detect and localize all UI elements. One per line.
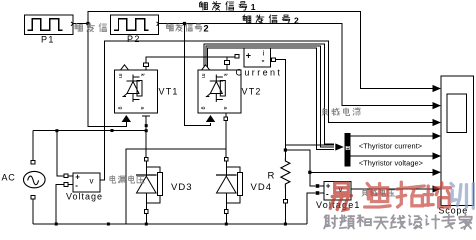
- wire: load node to scope input6 and Voltage1 + input: [285, 150, 433, 172]
- svg-text:k: k: [139, 74, 145, 77]
- VT2 gate input arrowhead below block: [206, 115, 215, 122]
- wire: bottom rail: [33, 223, 307, 225]
- wire: R bottom lead: [284, 203, 286, 224]
- wire: VT2 m-port fanout line a to bus selector: [204, 44, 334, 144]
- VT1 cathode port square: [144, 63, 149, 67]
- wire: VT2 m-port fanout line c to bus selector: [208, 48, 334, 150]
- diode VD3: [144, 157, 148, 161]
- svg-text:a: a: [222, 107, 228, 110]
- wire: AC source bottom terminal lead: [32, 199, 34, 224]
- svg-text:m: m: [117, 74, 123, 79]
- wire: Voltage - input to bottom rail: [56, 185, 64, 225]
- wire: Voltage1 - input to bottom rail: [307, 193, 316, 224]
- current measurement block Current: [244, 48, 271, 67]
- wire: P1 trigger branch down to VT1 gate: [88, 24, 126, 127]
- svg-text:VT2: VT2: [242, 87, 262, 97]
- svg-text:m: m: [200, 74, 206, 79]
- wire: bus selector output 2 to scope input5: [351, 155, 434, 157]
- wire: Voltage1 output to scope input7: [351, 188, 434, 190]
- label: 负载电压 grey: [363, 189, 364, 191]
- resistor R (load): [281, 158, 290, 189]
- scope block: [441, 76, 474, 206]
- wire: P1 trigger signal 触发信号1 to scope input1: [73, 12, 434, 89]
- svg-text:AC: AC: [2, 172, 16, 182]
- svg-text:R: R: [268, 170, 275, 181]
- svg-text:1: 1: [251, 2, 256, 12]
- wire: VT1 anode column down through node A to VD3 top: [142, 115, 150, 117]
- wire: common rail from bottom rail up across to VD4 column: [126, 149, 226, 224]
- VT1 m output port arrow (hollow): [121, 65, 129, 70]
- svg-text:Voltage: Voltage: [66, 191, 103, 201]
- wire: P2 trigger branch down to VT2 gate: [185, 24, 211, 126]
- thyristor VT2 block: [198, 70, 241, 113]
- svg-text:+: +: [246, 51, 251, 61]
- svg-text:-: -: [262, 56, 265, 66]
- voltage measurement block Voltage1: [324, 181, 351, 200]
- bus selector block: [345, 133, 351, 167]
- svg-text:2: 2: [294, 15, 299, 25]
- svg-text:-: -: [75, 181, 78, 190]
- wire: P2 trigger signal 触发信号2 to scope input2: [159, 24, 434, 106]
- svg-text:k: k: [222, 74, 228, 77]
- wire: AC source top terminal lead: [32, 131, 34, 161]
- label: 触发信号2 black: [243, 15, 244, 17]
- wire: VT2 m-port fanout line b to bus selector: [206, 46, 334, 147]
- pulse generator P2: [111, 15, 159, 35]
- svg-text:a: a: [139, 107, 145, 110]
- watermark line2 射频和天线设计专家: [324, 215, 472, 230]
- svg-text:P2: P2: [127, 34, 141, 44]
- wire: Voltage output up and across to scope input3: [100, 41, 433, 180]
- wire: current signal branch to bus selector arrow: [285, 144, 333, 146]
- svg-text:v: v: [90, 177, 94, 186]
- wire: VT1 cathode to Current input, tapped by VT2 cathode: [146, 57, 237, 70]
- wire: Voltage + input from node A: [57, 131, 64, 176]
- svg-text:Current: Current: [236, 68, 283, 78]
- VT1 gate input arrowhead below block: [122, 115, 131, 122]
- thyristor VT1 block: [115, 70, 158, 113]
- arrowhead into bus selector input: [335, 143, 344, 150]
- VT2 cathode stub: [226, 57, 228, 70]
- label: 负载电流 grey: [323, 108, 324, 110]
- label: 触发信号1 grey after P1: [75, 24, 76, 26]
- svg-text:-: -: [326, 190, 329, 199]
- wire: AC top rail (node A): [33, 130, 146, 132]
- pulse generator P1: [25, 15, 74, 35]
- label: 电源电压 grey: [112, 176, 115, 184]
- svg-text:2: 2: [204, 23, 209, 33]
- svg-text:P1: P1: [41, 34, 55, 44]
- wire: Current block output down to load node: [276, 60, 286, 158]
- svg-text:<Thyristor current>: <Thyristor current>: [359, 141, 422, 150]
- svg-text:g: g: [117, 107, 123, 110]
- voltage measurement block Voltage: [73, 173, 100, 192]
- svg-text:VD3: VD3: [171, 182, 192, 193]
- VT2 m output port arrow (hollow): [202, 65, 210, 70]
- diode VD4: [224, 157, 228, 161]
- wire: VD4 bottom lead: [225, 213, 227, 224]
- wire: VT2 anode column down to VD4 top: [225, 114, 227, 158]
- AC source: [24, 171, 46, 187]
- label: 触发信号2 grey after P2: [167, 24, 168, 25]
- svg-text:VT1: VT1: [159, 87, 179, 97]
- wire: VD3 bottom lead: [145, 213, 147, 224]
- svg-text:VD4: VD4: [251, 182, 272, 193]
- svg-text:g: g: [200, 107, 206, 110]
- watermark big 易迪拓培训: [330, 182, 473, 210]
- wire: bus selector output 1 to scope input4: [351, 135, 434, 137]
- svg-text:<Thyristor voltage>: <Thyristor voltage>: [359, 159, 423, 168]
- label: 触发信号1 black top: [200, 1, 202, 3]
